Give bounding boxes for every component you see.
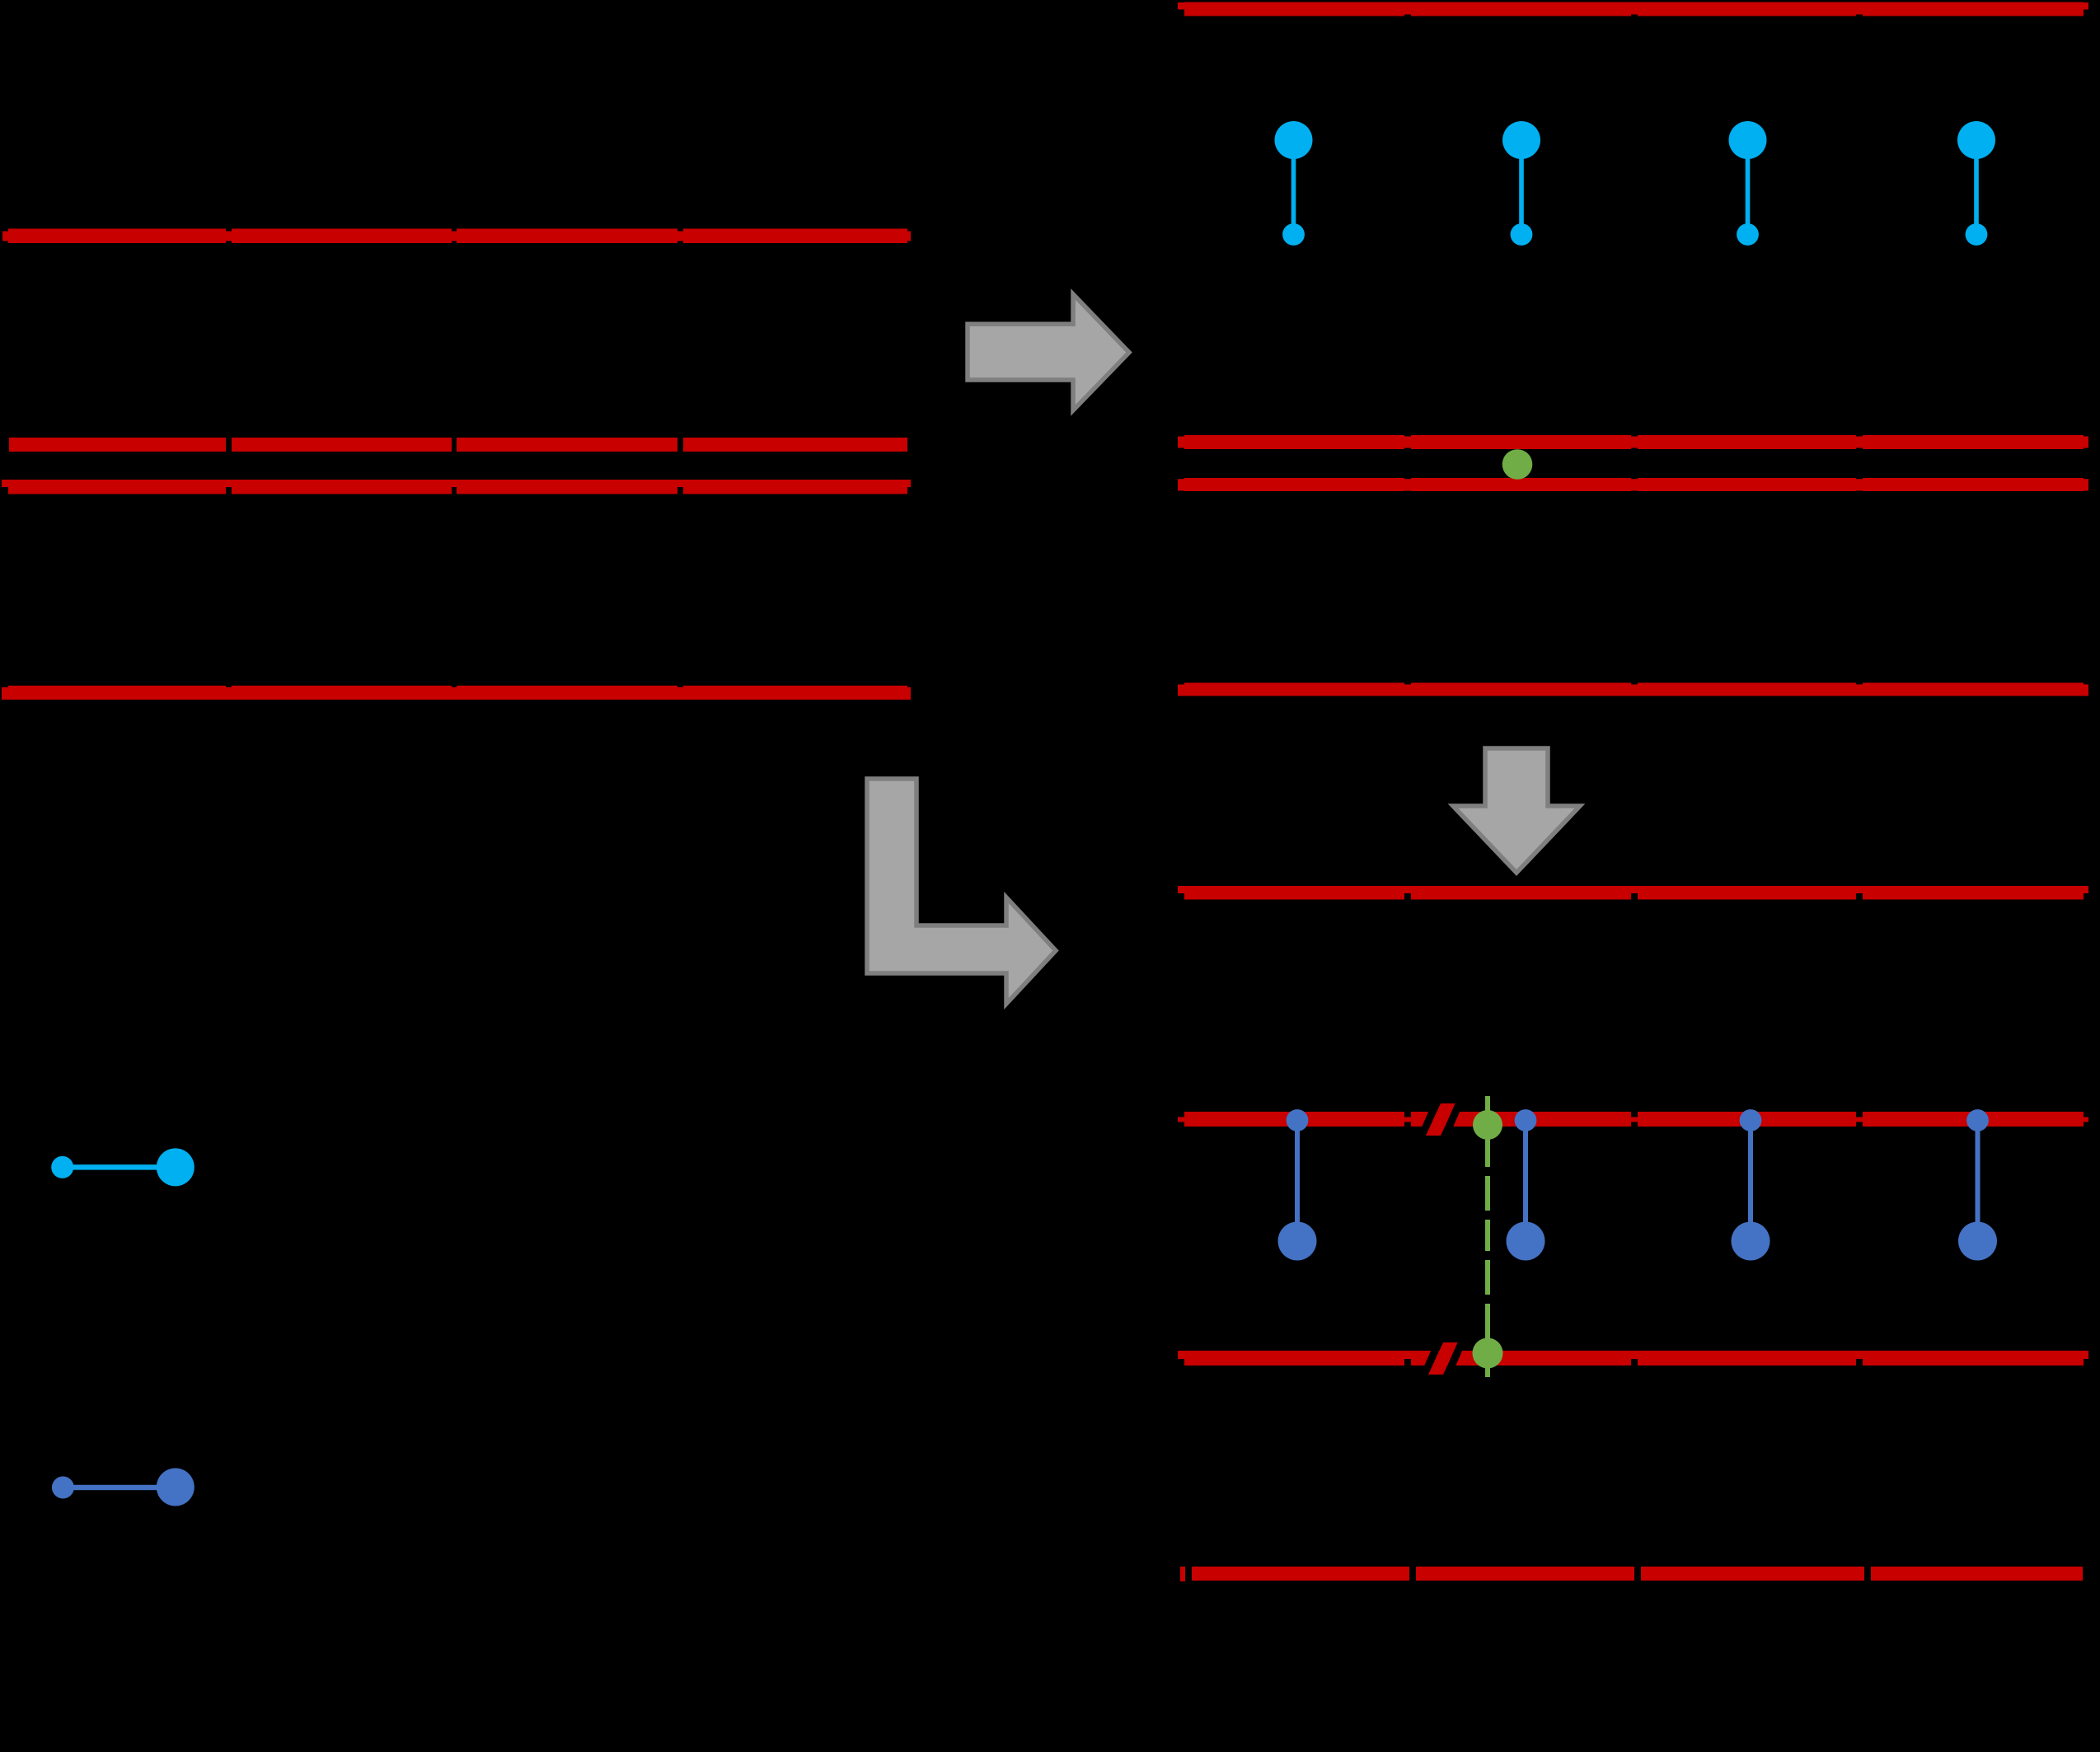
break mark on line A: red diagonal band: [1426, 1103, 1455, 1136]
gene model G5A-right: edited allele line A: [1178, 1112, 2088, 1127]
gene model G1-right: wild-type allele row 1 right (cut by top edge): [1178, 2, 2088, 16]
probe lollipop P3 cyan top: [1729, 121, 1767, 246]
legend symbol L2: blue lollipop horizontal: [52, 1469, 195, 1506]
SNP dot S3: green dot on line B: [1473, 1338, 1503, 1369]
mutation lollipop M1 blue on line A: [1278, 1109, 1317, 1260]
gene model G5B-right: edited allele line B: [1178, 1351, 2088, 1366]
arrow A3: gray elbow arrow down-then-right: [867, 779, 1056, 1004]
legend symbol L1: cyan lollipop horizontal: [51, 1148, 195, 1186]
mutation lollipop M4 blue on line A: [1958, 1109, 1997, 1260]
SNP dot S2: green dot on line A: [1473, 1110, 1502, 1140]
green dashed connector line between line A and line B: [1485, 1096, 1490, 1377]
gene model G3-left: transcript row 3 left: [2, 686, 911, 700]
probe lollipop P1 cyan top: [1275, 121, 1313, 246]
probe lollipop P4 cyan top: [1957, 121, 1995, 246]
mutation lollipop M3 blue on line A: [1732, 1109, 1770, 1260]
gene model G2b-right: duplex strand lower right: [1178, 478, 2088, 491]
gene model G3-right: transcript row 3 right: [1178, 683, 2088, 696]
gene model G2a-right: duplex strand upper right: [1178, 435, 2088, 449]
break mark on line A: black slash 2: [1441, 1103, 1464, 1136]
break mark on line B: red diagonal band: [1428, 1342, 1458, 1375]
SNP dot S1: green dot between duplex strands: [1502, 449, 1533, 480]
gene model G6-right: transcript bottom row: [1180, 1567, 2083, 1581]
gene model G4-right: transcript row 4 right: [1178, 886, 2088, 900]
gene model G1-left: wild-type allele row 1 left: [2, 229, 911, 244]
gene model G2b-left: duplex strand lower left: [2, 480, 911, 494]
arrow A2: gray down arrow: [1453, 748, 1580, 873]
break mark on line B: black slash 2: [1443, 1342, 1466, 1375]
probe lollipop P2 cyan top: [1502, 121, 1540, 246]
break mark on line B: black slash 1: [1420, 1342, 1443, 1375]
break mark on line A: black slash 1: [1418, 1103, 1441, 1136]
mutation lollipop M2 blue on line A: [1507, 1109, 1545, 1260]
arrow A1: gray right arrow between columns: [968, 294, 1129, 410]
gene model G2a-left: duplex strand upper left: [9, 438, 907, 452]
